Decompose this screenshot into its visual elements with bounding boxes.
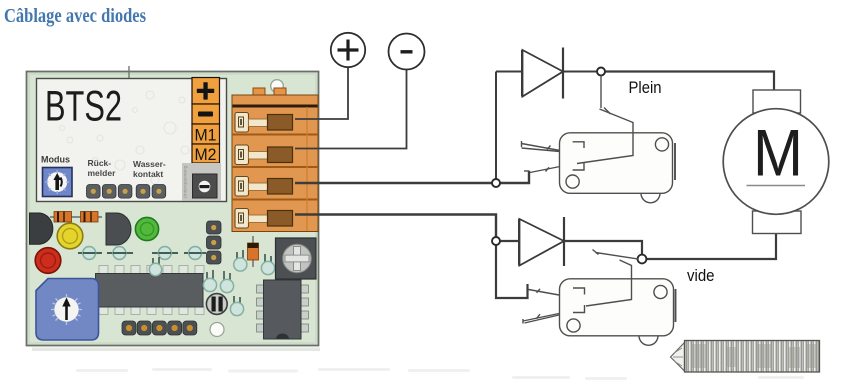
svg-text:BTS2: BTS2 <box>45 83 122 131</box>
svg-text:Rück-: Rück- <box>88 158 112 168</box>
svg-text:Unterspannung: Unterspannung <box>183 165 189 198</box>
svg-text:Câblage avec diodes: Câblage avec diodes <box>4 5 146 27</box>
svg-text:vide: vide <box>687 266 715 285</box>
svg-text:melder: melder <box>88 168 117 178</box>
svg-text:M: M <box>753 116 803 190</box>
svg-text:M1: M1 <box>195 126 217 145</box>
svg-text:Modus: Modus <box>41 155 70 165</box>
svg-text:M2: M2 <box>195 145 217 164</box>
svg-text:kontakt: kontakt <box>133 169 163 179</box>
svg-text:Wasser-: Wasser- <box>133 159 166 169</box>
svg-text:Plein: Plein <box>629 78 662 97</box>
